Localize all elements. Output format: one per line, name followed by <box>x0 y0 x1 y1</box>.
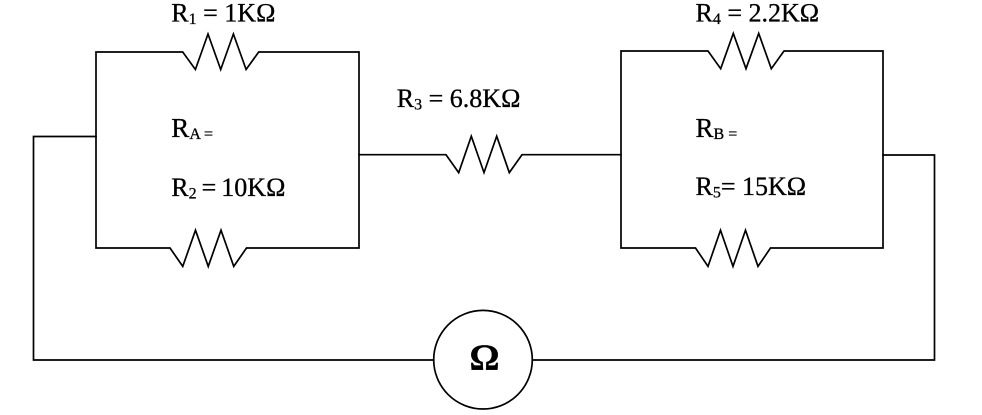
svg-text:R2 = 10KΩ: R2 = 10KΩ <box>171 173 285 203</box>
svg-text:Ω: Ω <box>469 338 499 379</box>
svg-text:R1 = 1KΩ: R1 = 1KΩ <box>171 0 275 28</box>
svg-text:R5= 15KΩ: R5= 15KΩ <box>696 172 807 202</box>
